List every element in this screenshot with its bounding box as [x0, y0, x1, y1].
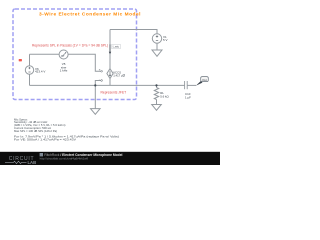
wire top supply rail to V1 [110, 30, 157, 34]
svg-text:Out: Out [202, 78, 207, 82]
current probe I_mic [109, 44, 111, 52]
wire VCCS bottom stub [109, 79, 111, 86]
wire sine source to VCCS + control [68, 54, 101, 71]
node flag Out [196, 81, 203, 86]
footer text [40, 153, 43, 156]
svg-text:1 µF: 1 µF [185, 95, 191, 99]
dashed model boundary box [13, 9, 137, 100]
VCCS control terminal - [101, 80, 103, 82]
svg-text:1.417 µ℧: 1.417 µ℧ [113, 74, 125, 78]
svg-text:-: - [99, 77, 100, 81]
svg-text:http://circuitlab.com/c/craf4g: http://circuitlab.com/c/craf4g6t4kh2w8 [40, 157, 89, 161]
wire mid ground stub [94, 85, 96, 108]
svg-text:I_mic: I_mic [112, 45, 119, 49]
footer bar [0, 152, 220, 165]
wire VCCS - control to bottom rail [95, 81, 101, 86]
svg-text:3-Wire Electret Condenser Mic: 3-Wire Electret Condenser Mic Model [39, 11, 141, 17]
wire RL bottom stub [156, 100, 158, 105]
svg-text:5 V: 5 V [163, 38, 168, 42]
svg-text:+: + [99, 67, 101, 71]
svg-text:423.4 V: 423.4 V [35, 70, 45, 74]
voltage source V6 (DC 423.4 V) [25, 66, 33, 74]
sine glyph with arrow [61, 52, 66, 57]
voltage source V1 (5 V) [152, 34, 161, 43]
ground under RL [152, 105, 162, 111]
svg-text:Represents SPL in Pascals (1V: Represents SPL in Pascals (1V = 1Pa = 94… [32, 43, 108, 47]
wire bottom rail [30, 84, 185, 86]
svg-text:1 kHz: 1 kHz [60, 69, 68, 73]
wire V1 to ground [156, 43, 158, 50]
svg-text:Max SPL = 130 dB SPL (126.2 Pa: Max SPL = 130 dB SPL (126.2 Pa) [14, 129, 57, 133]
resistor RL zigzag [154, 88, 158, 100]
svg-text:For VE: 500uA / 1.417uA/Pa = 4: For VE: 500uA / 1.417uA/Pa = 423.43V [14, 138, 76, 142]
ground middle (below box) [91, 109, 101, 115]
wire RL top stub [156, 85, 158, 87]
wire supply vertical to VCCS [109, 30, 111, 69]
wire V6 bottom stub [29, 74, 31, 85]
annotation: red marker near V6 [19, 59, 22, 61]
svg-text:5.6 kΩ: 5.6 kΩ [160, 94, 169, 98]
svg-text:Represents JFET: Represents JFET [101, 91, 127, 95]
svg-text:LAB: LAB [28, 160, 37, 165]
junction dot bottom rail / RL [155, 84, 157, 86]
ground under V1 [152, 50, 162, 56]
wire V6 top stub [29, 54, 31, 66]
wire top-left rail to sine source [30, 53, 60, 55]
sine source V5 [59, 50, 68, 59]
capacitor C10 [185, 81, 188, 89]
junction dot bottom rail / mid ground [94, 84, 96, 86]
VCCS arrow [109, 71, 111, 75]
VCCS control terminal + [101, 71, 103, 73]
VCCS dependent source diamond [107, 69, 113, 79]
notes text block [14, 117, 119, 141]
wire cap right to out flag [187, 84, 196, 86]
